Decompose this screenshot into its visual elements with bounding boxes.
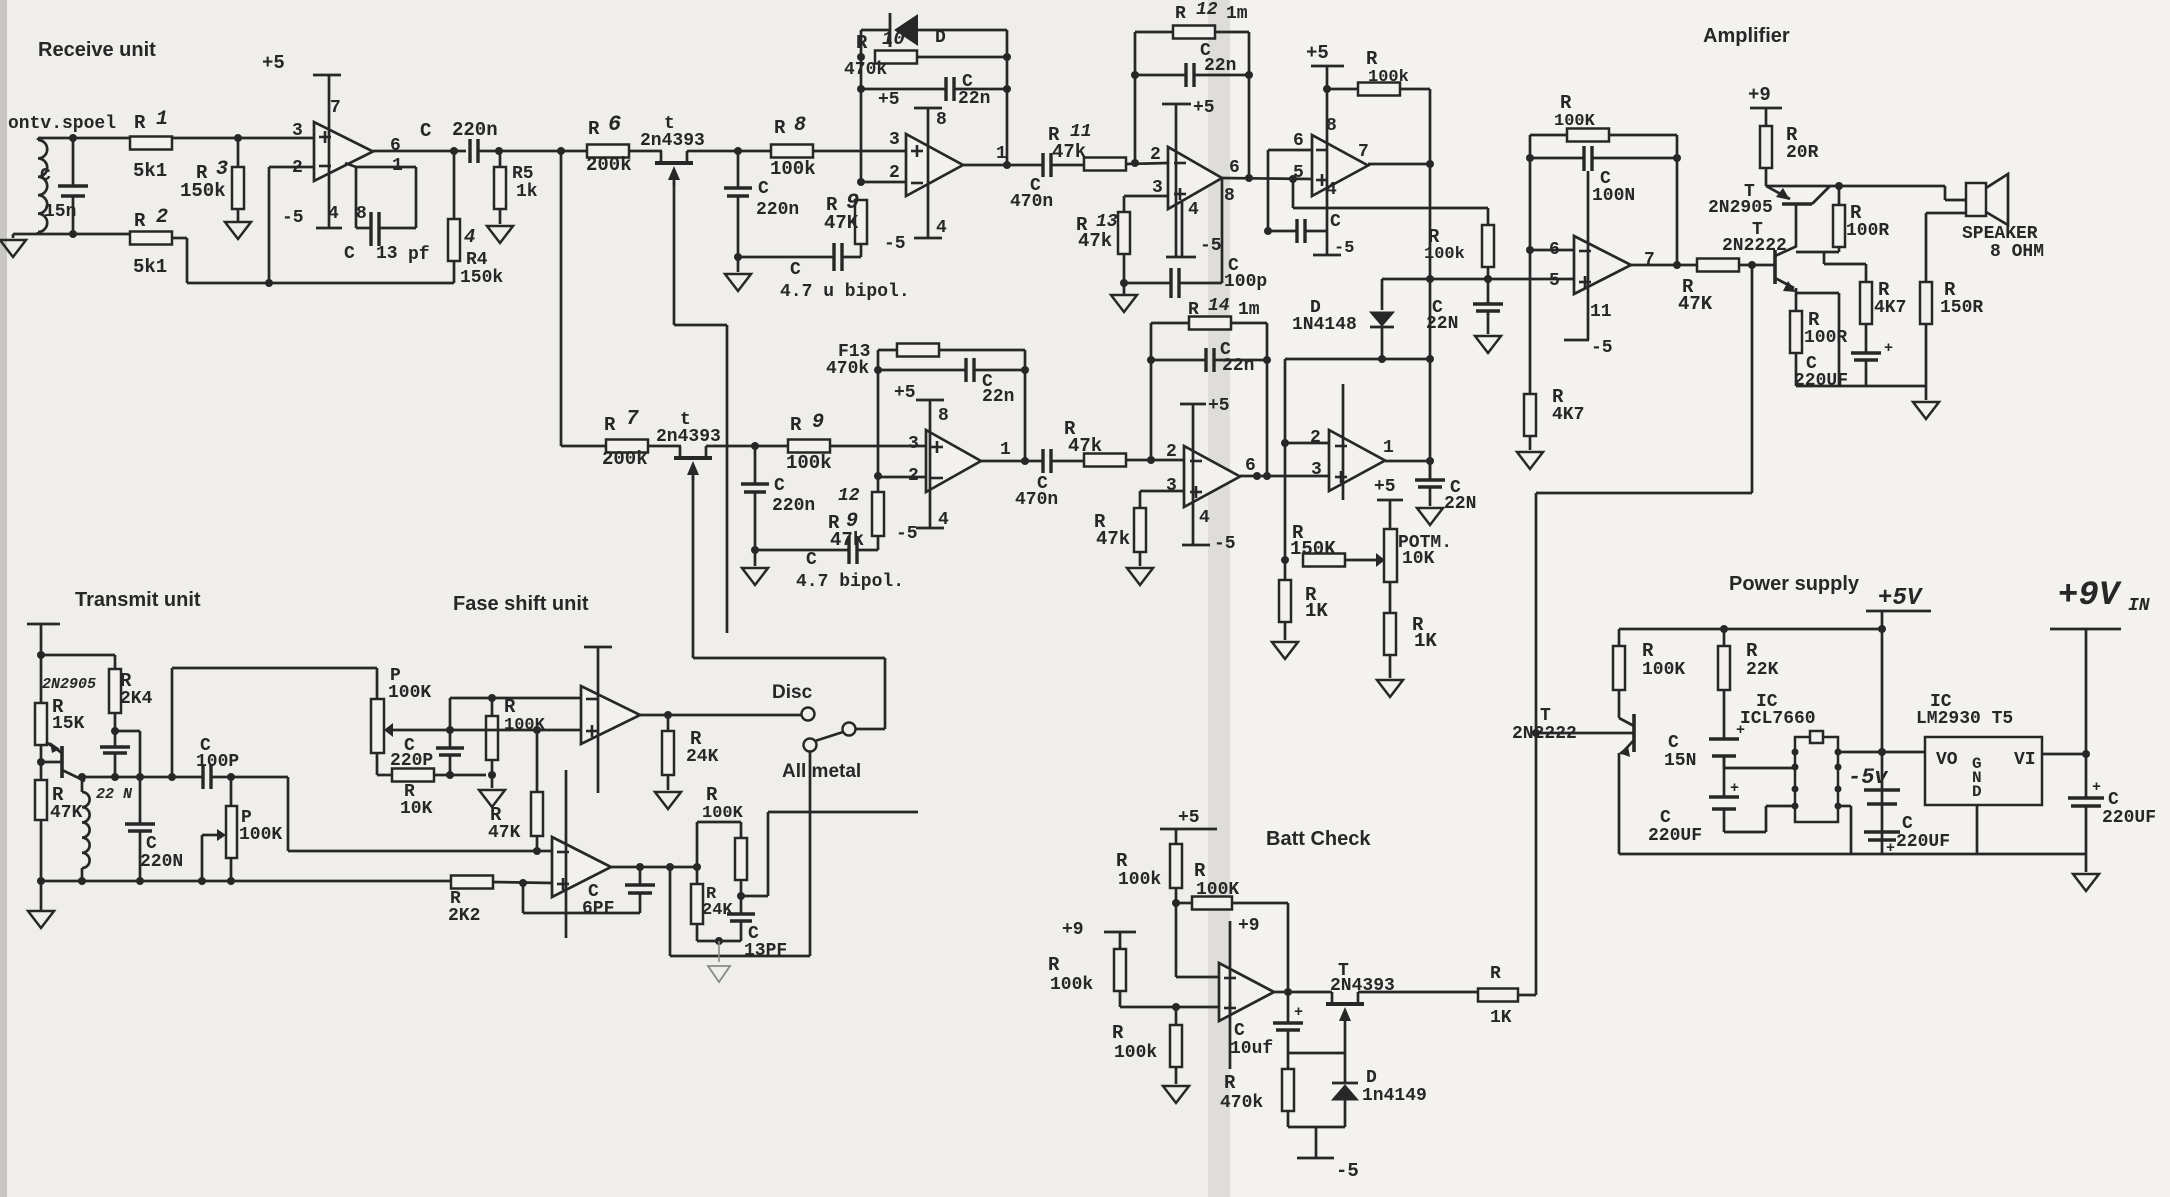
svg-text:+9: +9: [1238, 916, 1260, 936]
svg-text:3: 3: [292, 121, 303, 141]
svg-text:220n: 220n: [452, 119, 498, 141]
svg-text:10K: 10K: [1402, 549, 1435, 569]
svg-text:+5: +5: [1178, 808, 1200, 828]
svg-text:2: 2: [1166, 442, 1177, 462]
svg-text:470k: 470k: [826, 359, 869, 379]
svg-text:6: 6: [1293, 131, 1304, 151]
svg-text:C: C: [40, 166, 51, 186]
svg-text:4: 4: [1188, 200, 1199, 220]
svg-text:C: C: [1668, 733, 1679, 753]
svg-text:5k1: 5k1: [133, 160, 167, 182]
svg-text:VO: VO: [1936, 750, 1958, 770]
svg-text:4: 4: [936, 218, 947, 238]
svg-text:11: 11: [1590, 302, 1612, 322]
svg-text:+5: +5: [894, 383, 916, 403]
svg-text:22N: 22N: [1444, 494, 1476, 514]
svg-text:100k: 100k: [1424, 245, 1465, 264]
svg-text:8: 8: [356, 204, 367, 224]
svg-text:2K2: 2K2: [448, 906, 480, 926]
svg-text:Power supply: Power supply: [1729, 573, 1860, 595]
svg-text:2n4393: 2n4393: [640, 131, 705, 151]
svg-text:220N: 220N: [140, 852, 183, 872]
svg-text:C: C: [774, 476, 785, 496]
svg-text:47K: 47K: [1678, 293, 1713, 315]
svg-text:4K7: 4K7: [1874, 298, 1906, 318]
svg-text:R: R: [706, 784, 718, 806]
svg-text:C: C: [806, 550, 817, 570]
svg-text:+: +: [1884, 340, 1893, 357]
svg-text:VI: VI: [2014, 750, 2036, 770]
svg-text:13PF: 13PF: [744, 941, 787, 961]
svg-text:100K: 100K: [702, 804, 744, 823]
svg-text:C: C: [420, 120, 431, 142]
svg-text:R: R: [1560, 92, 1572, 114]
svg-text:C: C: [1330, 212, 1341, 232]
svg-text:15n: 15n: [44, 202, 76, 222]
svg-text:2: 2: [292, 158, 303, 178]
svg-text:C: C: [758, 179, 769, 199]
svg-text:22n: 22n: [1222, 356, 1254, 376]
svg-text:2: 2: [889, 163, 900, 183]
svg-text:-5: -5: [896, 524, 918, 544]
svg-text:47k: 47k: [1052, 141, 1086, 163]
svg-text:2N2222: 2N2222: [1512, 724, 1577, 744]
svg-text:3: 3: [889, 130, 900, 150]
svg-text:47K: 47K: [488, 823, 521, 843]
svg-text:1: 1: [996, 144, 1007, 164]
svg-text:R: R: [604, 414, 616, 436]
svg-text:47K: 47K: [824, 212, 859, 234]
svg-text:1: 1: [1000, 440, 1011, 460]
svg-text:5: 5: [1293, 163, 1304, 183]
svg-text:47k: 47k: [1096, 528, 1130, 550]
svg-text:-5: -5: [1336, 1160, 1359, 1182]
svg-text:-5: -5: [1214, 534, 1236, 554]
svg-text:15N: 15N: [1664, 751, 1696, 771]
svg-text:150K: 150K: [1290, 538, 1336, 560]
svg-text:Receive unit: Receive unit: [38, 39, 156, 61]
svg-text:470n: 470n: [1015, 490, 1058, 510]
svg-text:R: R: [1642, 640, 1654, 662]
svg-text:1m: 1m: [1226, 4, 1248, 24]
svg-text:-5: -5: [1200, 236, 1222, 256]
svg-text:IN: IN: [2128, 596, 2150, 616]
svg-text:8 OHM: 8 OHM: [1990, 242, 2044, 262]
svg-text:R: R: [1746, 640, 1758, 662]
svg-text:+9V: +9V: [2058, 577, 2122, 615]
svg-text:100p: 100p: [1224, 272, 1267, 292]
svg-text:3: 3: [216, 158, 228, 181]
svg-text:100k: 100k: [1368, 68, 1409, 87]
svg-text:R: R: [1112, 1022, 1124, 1044]
svg-text:7: 7: [330, 98, 341, 118]
svg-text:pf: pf: [408, 245, 430, 265]
svg-text:100K: 100K: [388, 683, 431, 703]
svg-text:5k1: 5k1: [133, 256, 167, 278]
svg-text:100K: 100K: [1554, 112, 1596, 131]
svg-text:-5v: -5v: [1848, 765, 1888, 790]
svg-text:100k: 100k: [786, 452, 832, 474]
svg-text:20R: 20R: [1786, 143, 1819, 163]
svg-text:24K: 24K: [702, 901, 733, 920]
svg-text:-5: -5: [1591, 338, 1613, 358]
svg-text:+5: +5: [262, 52, 285, 74]
svg-text:ICL7660: ICL7660: [1740, 709, 1816, 729]
svg-text:6PF: 6PF: [582, 899, 614, 919]
svg-text:1m: 1m: [1238, 300, 1260, 320]
svg-text:9: 9: [812, 411, 824, 434]
svg-text:1: 1: [156, 108, 168, 131]
svg-text:Amplifier: Amplifier: [1703, 25, 1790, 47]
svg-text:All metal: All metal: [782, 761, 861, 782]
svg-text:4.7 u bipol.: 4.7 u bipol.: [780, 282, 910, 302]
svg-text:4.7 bipol.: 4.7 bipol.: [796, 572, 904, 592]
svg-text:C: C: [146, 834, 157, 854]
svg-text:+: +: [1294, 1004, 1303, 1021]
svg-text:7: 7: [626, 408, 639, 431]
svg-text:R: R: [1188, 300, 1199, 320]
svg-text:R: R: [856, 32, 868, 54]
svg-text:47k: 47k: [830, 529, 864, 551]
svg-text:R: R: [1366, 48, 1378, 70]
svg-text:7: 7: [1644, 250, 1655, 270]
svg-text:220UF: 220UF: [1896, 832, 1950, 852]
svg-text:C: C: [2108, 790, 2119, 810]
svg-text:100k: 100k: [1114, 1043, 1157, 1063]
svg-text:4: 4: [1199, 508, 1210, 528]
svg-text:R: R: [134, 112, 146, 134]
svg-text:3: 3: [1311, 460, 1322, 480]
svg-text:3: 3: [1166, 476, 1177, 496]
svg-text:47K: 47K: [50, 803, 83, 823]
svg-text:1K: 1K: [1305, 600, 1328, 622]
svg-text:R4: R4: [466, 250, 488, 270]
svg-text:+9: +9: [1748, 84, 1771, 106]
svg-text:8: 8: [794, 114, 806, 137]
svg-text:-5: -5: [1334, 239, 1354, 258]
svg-text:22K: 22K: [1746, 660, 1779, 680]
svg-text:470k: 470k: [1220, 1093, 1263, 1113]
svg-text:1k: 1k: [516, 182, 538, 202]
svg-text:LM2930 T5: LM2930 T5: [1916, 709, 2013, 729]
svg-text:100R: 100R: [1846, 221, 1889, 241]
svg-text:C: C: [1234, 1021, 1245, 1041]
svg-text:22n: 22n: [1204, 56, 1236, 76]
svg-text:4: 4: [938, 510, 949, 530]
svg-text:+: +: [2092, 779, 2101, 796]
svg-text:1N4148: 1N4148: [1292, 315, 1357, 335]
svg-text:SPEAKER: SPEAKER: [1962, 224, 2038, 244]
svg-text:2N2905: 2N2905: [1708, 198, 1773, 218]
svg-text:6: 6: [1245, 456, 1256, 476]
svg-text:150k: 150k: [460, 268, 503, 288]
svg-text:R: R: [1194, 860, 1206, 882]
svg-text:D: D: [935, 28, 946, 48]
svg-text:100K: 100K: [1642, 660, 1685, 680]
svg-text:8: 8: [1224, 186, 1235, 206]
svg-text:R: R: [790, 414, 802, 436]
svg-text:6: 6: [608, 112, 621, 137]
svg-text:100R: 100R: [1804, 328, 1847, 348]
svg-text:4K7: 4K7: [1552, 405, 1584, 425]
svg-text:2N2905: 2N2905: [42, 676, 96, 693]
svg-text:R: R: [1116, 850, 1128, 872]
svg-text:ontv.spoel: ontv.spoel: [8, 114, 116, 134]
svg-text:D: D: [1972, 783, 1982, 801]
svg-text:220UF: 220UF: [2102, 808, 2156, 828]
svg-text:C: C: [344, 244, 355, 264]
svg-text:14: 14: [1208, 296, 1230, 316]
svg-text:10K: 10K: [400, 799, 433, 819]
svg-text:R: R: [1490, 964, 1501, 984]
svg-text:8: 8: [936, 110, 947, 130]
svg-text:4: 4: [464, 226, 475, 248]
svg-text:22N: 22N: [1426, 314, 1458, 334]
svg-text:7: 7: [1358, 142, 1369, 162]
svg-text:+5: +5: [1193, 98, 1215, 118]
svg-text:R: R: [1224, 1072, 1236, 1094]
svg-text:C: C: [1660, 808, 1671, 828]
svg-text:47k: 47k: [1068, 435, 1102, 457]
svg-text:12: 12: [838, 486, 860, 506]
svg-text:13: 13: [1096, 212, 1118, 232]
svg-text:+5: +5: [1374, 477, 1396, 497]
svg-text:+: +: [1730, 780, 1739, 797]
svg-text:150k: 150k: [180, 180, 226, 202]
svg-text:100K: 100K: [1196, 880, 1239, 900]
svg-text:470k: 470k: [844, 60, 887, 80]
svg-text:150R: 150R: [1940, 298, 1983, 318]
svg-text:C: C: [1902, 814, 1913, 834]
svg-text:100N: 100N: [1592, 186, 1635, 206]
svg-text:220n: 220n: [772, 496, 815, 516]
svg-text:6: 6: [1229, 158, 1240, 178]
svg-text:Transmit unit: Transmit unit: [75, 589, 201, 611]
svg-text:11: 11: [1070, 122, 1092, 142]
svg-text:Batt Check: Batt Check: [1266, 828, 1371, 850]
svg-text:R: R: [1175, 4, 1186, 24]
svg-text:22n: 22n: [958, 89, 990, 109]
svg-text:100K: 100K: [239, 825, 282, 845]
svg-text:2: 2: [1150, 145, 1161, 165]
svg-text:10uf: 10uf: [1230, 1039, 1273, 1059]
svg-text:+5: +5: [878, 90, 900, 110]
svg-text:C: C: [790, 260, 801, 280]
svg-text:24K: 24K: [686, 747, 719, 767]
svg-text:220n: 220n: [756, 200, 799, 220]
svg-text:22n: 22n: [982, 387, 1014, 407]
svg-text:1K: 1K: [1490, 1008, 1512, 1028]
svg-text:8: 8: [938, 406, 949, 426]
svg-text:22 N: 22 N: [96, 786, 133, 803]
svg-text:100k: 100k: [1050, 975, 1093, 995]
svg-text:2K4: 2K4: [120, 689, 153, 709]
svg-text:2N2222: 2N2222: [1722, 236, 1787, 256]
svg-text:1: 1: [1383, 438, 1394, 458]
svg-text:5: 5: [1549, 271, 1560, 291]
svg-text:15K: 15K: [52, 714, 85, 734]
svg-text:+5: +5: [1208, 396, 1230, 416]
svg-text:R: R: [1048, 954, 1060, 976]
svg-text:6: 6: [390, 136, 401, 156]
svg-text:R: R: [588, 118, 600, 140]
svg-text:Disc: Disc: [772, 682, 813, 703]
svg-text:100P: 100P: [196, 752, 239, 772]
svg-text:R: R: [134, 210, 146, 232]
svg-text:100k: 100k: [1118, 870, 1161, 890]
svg-text:200k: 200k: [586, 154, 632, 176]
svg-text:1K: 1K: [1414, 630, 1437, 652]
svg-text:R: R: [774, 117, 786, 139]
svg-text:1n4149: 1n4149: [1362, 1086, 1427, 1106]
svg-text:47k: 47k: [1078, 230, 1112, 252]
svg-text:13: 13: [376, 244, 398, 264]
svg-text:12: 12: [1196, 0, 1218, 20]
svg-text:Fase shift unit: Fase shift unit: [453, 593, 589, 615]
svg-text:2: 2: [1310, 428, 1321, 448]
svg-text:200k: 200k: [602, 448, 648, 470]
svg-text:2: 2: [156, 206, 168, 229]
svg-text:T: T: [1540, 706, 1551, 726]
svg-text:470n: 470n: [1010, 192, 1053, 212]
svg-text:R5: R5: [512, 164, 534, 184]
svg-text:100k: 100k: [770, 158, 816, 180]
svg-text:220UF: 220UF: [1648, 826, 1702, 846]
svg-text:+5V: +5V: [1878, 585, 1924, 612]
svg-text:3: 3: [908, 434, 919, 454]
svg-text:-5: -5: [282, 208, 304, 228]
svg-text:+5: +5: [1306, 42, 1329, 64]
svg-text:D: D: [1366, 1068, 1377, 1088]
svg-text:-5: -5: [884, 234, 906, 254]
svg-text:+9: +9: [1062, 920, 1084, 940]
svg-text:2n4393: 2n4393: [656, 427, 721, 447]
